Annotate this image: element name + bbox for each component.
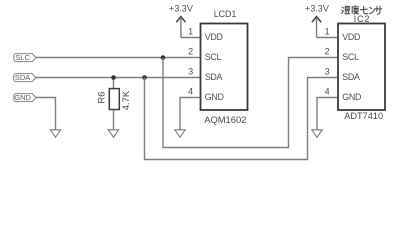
IC IC2 box bbox=[338, 14, 385, 121]
net label GND bbox=[14, 93, 36, 102]
wire VDD2 stub bbox=[317, 37, 339, 39]
resistor R6 bbox=[97, 78, 132, 131]
wire GND label to ground bbox=[36, 98, 56, 131]
power +3.3V (IC2) bbox=[305, 4, 330, 38]
svg-text:1: 1 bbox=[188, 27, 193, 37]
pin 2 SCL (LCD1) bbox=[188, 47, 221, 62]
wire SCL bottom route bbox=[163, 58, 338, 148]
svg-text:IC2: IC2 bbox=[354, 14, 371, 24]
pin 3 SDA (LCD1) bbox=[188, 67, 222, 82]
pin 1 VDD (LCD1) bbox=[188, 27, 223, 42]
IC LCD1 box bbox=[201, 9, 248, 125]
svg-text:SDA: SDA bbox=[15, 73, 30, 82]
ground (R6) bbox=[108, 130, 118, 138]
svg-text:R6: R6 bbox=[97, 92, 108, 104]
svg-text:SCL: SCL bbox=[342, 52, 359, 62]
pin 2 SCL (IC2) bbox=[325, 47, 359, 62]
net label SLC bbox=[14, 53, 36, 62]
svg-text:4: 4 bbox=[188, 87, 193, 97]
svg-text:3: 3 bbox=[188, 67, 193, 77]
svg-text:+3.3V: +3.3V bbox=[305, 4, 330, 14]
wire IC2 GND to ground bbox=[317, 98, 338, 131]
net label SDA bbox=[14, 73, 36, 82]
svg-text:VDD: VDD bbox=[205, 32, 223, 42]
svg-text:4: 4 bbox=[325, 87, 330, 97]
svg-text:2: 2 bbox=[188, 47, 193, 57]
svg-text:SLC: SLC bbox=[15, 53, 30, 62]
svg-text:2: 2 bbox=[325, 47, 330, 57]
svg-text:GND: GND bbox=[342, 92, 361, 102]
label 温度センサ (temperature sensor) bbox=[342, 6, 382, 15]
ground (GND label) bbox=[50, 130, 60, 138]
junction dot SCL drop bbox=[161, 55, 166, 60]
svg-text:3: 3 bbox=[325, 67, 330, 77]
ン bbox=[370, 7, 375, 13]
温 bbox=[342, 7, 344, 13]
svg-text:4.7K: 4.7K bbox=[121, 90, 132, 110]
wire VDD1 stub bbox=[181, 37, 201, 39]
svg-text:SDA: SDA bbox=[342, 72, 360, 82]
junction dot R6/SDA bbox=[111, 75, 116, 80]
ground (LCD1) bbox=[175, 130, 185, 138]
wire SDA bottom route bbox=[145, 78, 339, 160]
pin 4 GND (LCD1) bbox=[188, 87, 224, 102]
svg-text:1: 1 bbox=[325, 27, 330, 37]
svg-text:AQM1602: AQM1602 bbox=[204, 114, 246, 125]
svg-text:+3.3V: +3.3V bbox=[169, 4, 194, 14]
度 bbox=[352, 6, 359, 15]
svg-text:SCL: SCL bbox=[205, 52, 222, 62]
wire SDA horizontal bbox=[36, 77, 201, 79]
svg-text:SDA: SDA bbox=[205, 72, 223, 82]
junction dot SDA drop bbox=[142, 75, 147, 80]
pin 3 SDA (IC2) bbox=[325, 67, 360, 82]
svg-text:LCD1: LCD1 bbox=[214, 9, 237, 19]
svg-text:GND: GND bbox=[14, 93, 31, 102]
wire LCD1 GND to ground bbox=[180, 98, 201, 131]
svg-text:ADT7410: ADT7410 bbox=[344, 111, 383, 121]
svg-text:GND: GND bbox=[205, 92, 224, 102]
svg-text:VDD: VDD bbox=[342, 32, 360, 42]
wire SCL horizontal bbox=[36, 57, 201, 59]
ground (IC2) bbox=[312, 130, 322, 138]
pin 1 VDD (IC2) bbox=[325, 27, 361, 42]
セ bbox=[360, 6, 367, 14]
power +3.3V (LCD1) bbox=[169, 4, 194, 38]
pin 4 GND (IC2) bbox=[325, 87, 362, 102]
サ bbox=[375, 6, 382, 14]
